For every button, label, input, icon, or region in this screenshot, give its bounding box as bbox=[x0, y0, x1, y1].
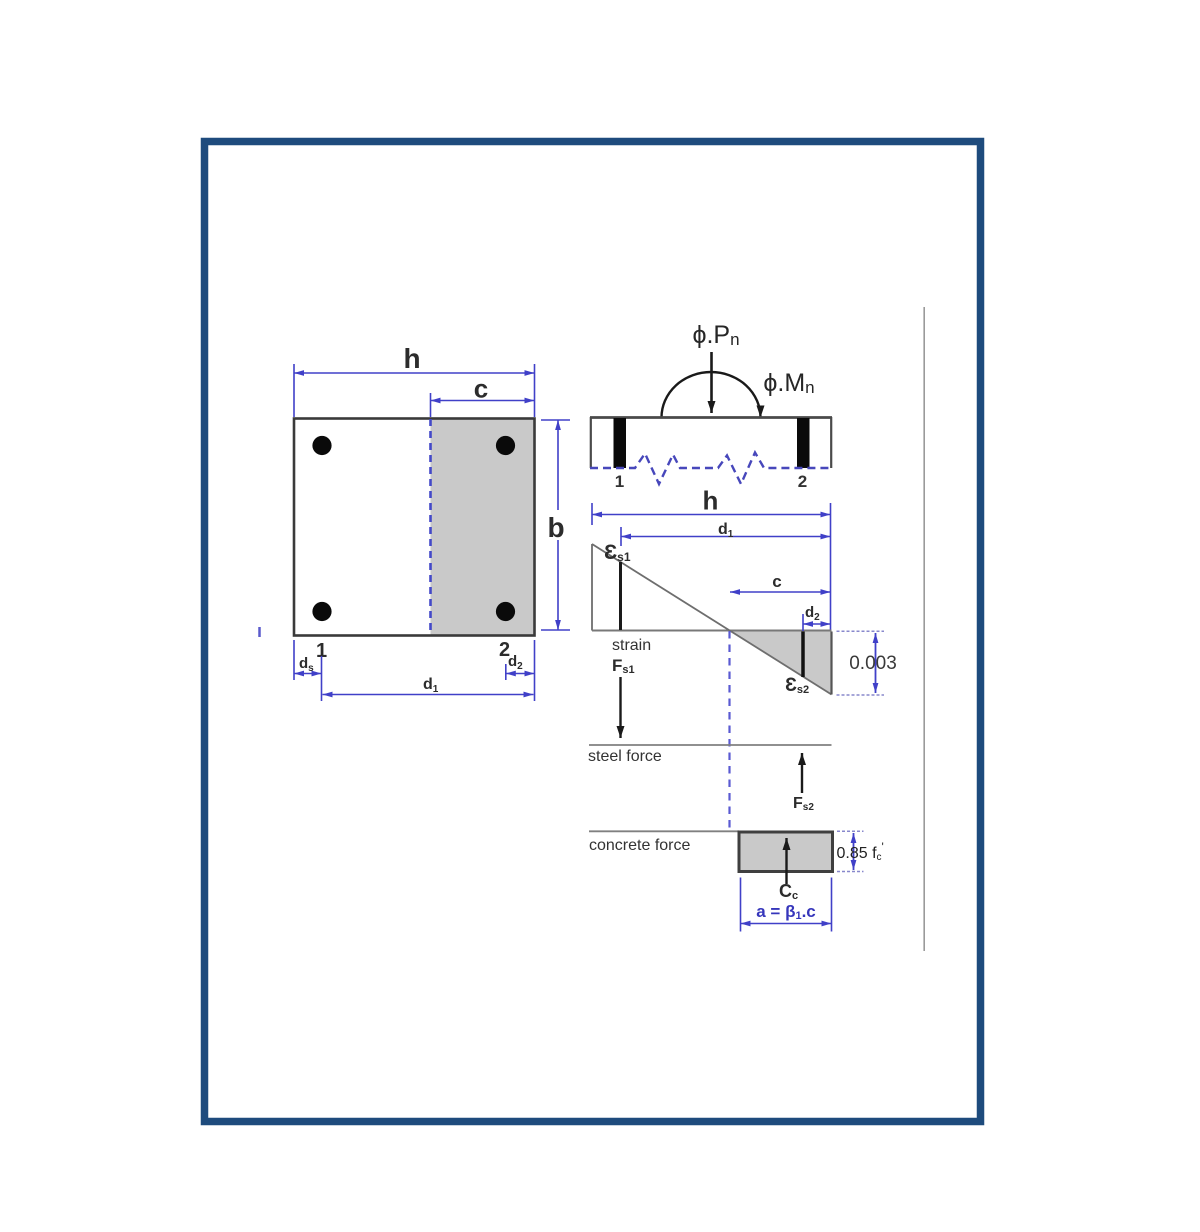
axial load arrow bbox=[710, 352, 713, 413]
moment arc bbox=[662, 372, 761, 418]
ds extension lines bbox=[293, 640, 295, 680]
svg-text:steel force: steel force bbox=[588, 748, 662, 765]
svg-text:ϕ.Pn: ϕ.Pn bbox=[692, 321, 739, 349]
svg-text:h: h bbox=[403, 343, 420, 374]
rebar bar 1 bbox=[614, 418, 627, 468]
ds dimension line bbox=[294, 673, 322, 675]
svg-text:d2: d2 bbox=[805, 604, 820, 623]
right vertical reference line bbox=[923, 307, 925, 951]
d2 extension lines bbox=[505, 664, 507, 680]
Fs2 arrow bbox=[801, 753, 803, 793]
svg-text:2: 2 bbox=[798, 472, 807, 491]
eps s2 bar bbox=[801, 632, 805, 678]
d2 (strain) dimension line bbox=[803, 623, 831, 625]
column section outline bbox=[294, 419, 535, 636]
svg-text:Cc: Cc bbox=[779, 881, 798, 902]
svg-text:a = β1.c: a = β1.c bbox=[756, 902, 816, 922]
svg-text:ds: ds bbox=[299, 655, 314, 674]
svg-text:d1: d1 bbox=[423, 676, 439, 695]
svg-text:0.003: 0.003 bbox=[849, 653, 897, 674]
dimension b line bbox=[557, 420, 559, 630]
strain sloping line bbox=[592, 544, 832, 695]
strain triangle left edge bbox=[591, 544, 593, 631]
h (strain) dimension line bbox=[592, 514, 831, 516]
svg-text:1: 1 bbox=[615, 472, 624, 491]
neutral axis dashed vertical (strain/force) bbox=[728, 631, 730, 830]
c (strain) dimension line bbox=[730, 591, 831, 593]
svg-text:ϕ.Mn: ϕ.Mn bbox=[763, 369, 814, 397]
rebar bottom-left bbox=[312, 602, 331, 621]
svg-text:b: b bbox=[547, 512, 564, 543]
steel force line bbox=[589, 744, 832, 746]
d2 (strain) tick bbox=[802, 614, 804, 631]
beam outline bbox=[590, 416, 832, 419]
rebar bar 2 bbox=[797, 418, 810, 468]
strain zero axis bbox=[592, 630, 832, 632]
dimension b ticks bbox=[541, 419, 570, 421]
d1 (strain) dimension line bbox=[621, 536, 831, 538]
svg-text:concrete force: concrete force bbox=[589, 837, 690, 854]
dimension h line bbox=[294, 372, 535, 374]
a dimension extension lines bbox=[740, 878, 742, 932]
svg-text:Fs2: Fs2 bbox=[793, 795, 814, 813]
concrete force line bbox=[589, 830, 739, 832]
0.85fc dimension line bbox=[853, 833, 855, 870]
dimension c line bbox=[431, 400, 535, 402]
svg-text:Fs1: Fs1 bbox=[612, 656, 635, 676]
neutral axis dashed line bbox=[429, 419, 432, 635]
d1 dimension line bbox=[323, 694, 534, 696]
rebar top-left bbox=[312, 436, 331, 455]
a dimension line bbox=[741, 923, 832, 925]
Fs1 arrow bbox=[619, 677, 621, 738]
Cc arrow bbox=[785, 838, 787, 884]
0.003 ticks bbox=[837, 630, 885, 632]
h (strain) end bars bbox=[591, 503, 593, 525]
d1 (strain) tick bbox=[620, 527, 622, 546]
svg-text:d2: d2 bbox=[508, 653, 523, 672]
beam bottom dashed spring line bbox=[590, 453, 832, 485]
0.85fc ticks bbox=[837, 830, 864, 832]
svg-text:d1: d1 bbox=[718, 521, 734, 540]
svg-text:Ɛs1: Ɛs1 bbox=[604, 541, 631, 564]
stray blue tick left bbox=[258, 627, 261, 637]
d2 dimension line bbox=[506, 673, 535, 675]
strain gray triangle bbox=[731, 632, 832, 695]
rebar top-right bbox=[496, 436, 515, 455]
svg-text:c: c bbox=[772, 572, 781, 591]
stress block bbox=[739, 832, 833, 872]
label b halo bbox=[546, 510, 567, 540]
svg-text:0.85 fc': 0.85 fc' bbox=[837, 840, 884, 863]
svg-text:h: h bbox=[703, 486, 719, 516]
rebar bottom-right bbox=[496, 602, 515, 621]
strain right edge dark bbox=[830, 632, 832, 695]
column section: compression zone (gray) bbox=[431, 420, 534, 635]
svg-text:strain: strain bbox=[612, 637, 651, 654]
svg-text:c: c bbox=[474, 374, 488, 404]
0.003 dimension line bbox=[875, 633, 877, 693]
dimension h extension lines bbox=[293, 364, 295, 417]
page frame bbox=[205, 142, 981, 1122]
eps s1 bar bbox=[619, 562, 622, 630]
